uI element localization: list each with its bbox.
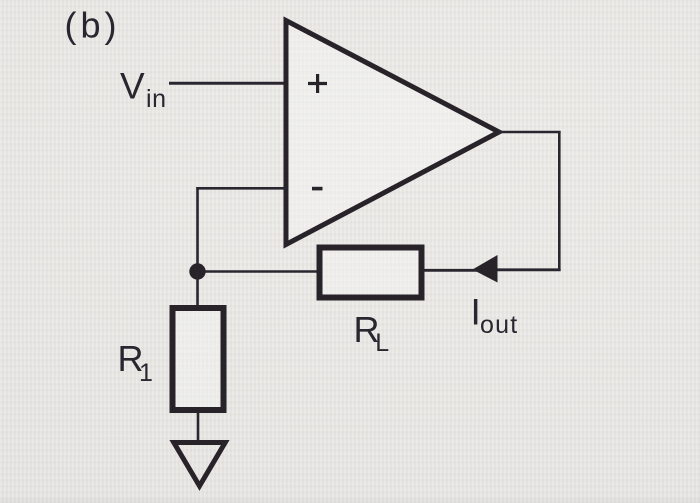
- label Iout: [471, 292, 519, 340]
- label RL: [354, 309, 390, 357]
- ground: [174, 443, 225, 487]
- wire feedback bottom to arrow: [494, 268, 561, 271]
- svg-text:out: out: [480, 311, 518, 339]
- svg-text:1: 1: [139, 359, 153, 387]
- wire RL to node: [198, 270, 318, 273]
- wire Vin to op-amp + input: [169, 82, 287, 85]
- wire R1 to ground: [197, 412, 200, 442]
- svg-text:in: in: [146, 85, 167, 113]
- resistor R1: [173, 308, 224, 410]
- label R1: [118, 338, 153, 387]
- wire arrow to RL: [424, 269, 478, 272]
- arrow Iout current direction: [473, 255, 498, 283]
- wire inverting input horizontal: [196, 187, 287, 190]
- svg-text:L: L: [375, 329, 389, 357]
- svg-text:(b): (b): [65, 5, 121, 46]
- op-amp U1: [286, 21, 499, 245]
- svg-text:V: V: [120, 65, 145, 106]
- resistor RL: [320, 248, 422, 298]
- node junction dot: [189, 263, 205, 279]
- wire feedback vertical: [558, 131, 561, 271]
- node Vin label: [120, 65, 167, 113]
- wire inverting input vertical to node: [196, 187, 199, 272]
- label (b): [65, 5, 121, 46]
- wire node to R1: [196, 272, 199, 307]
- wire op-amp output to feedback corner: [497, 131, 561, 134]
